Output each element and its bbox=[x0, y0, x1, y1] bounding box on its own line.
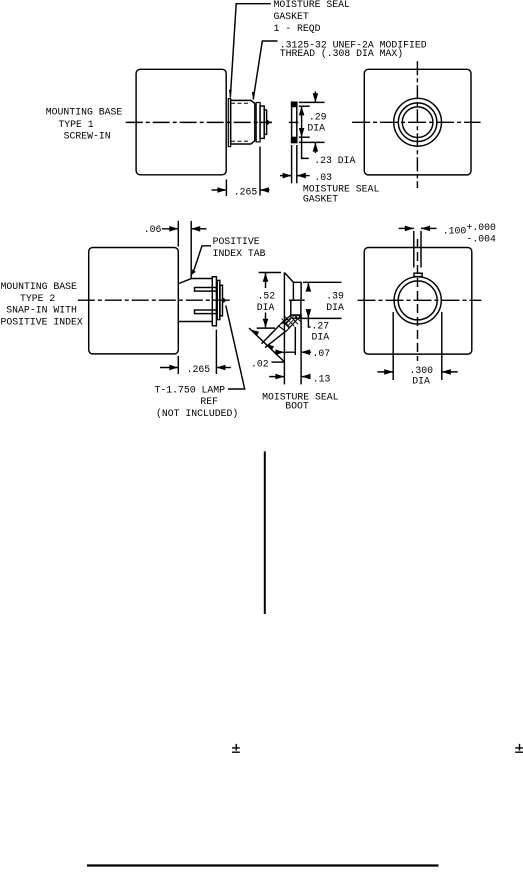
center line type 2 side bbox=[78, 299, 232, 301]
bottom rule bbox=[87, 864, 439, 866]
svg-text:POSITIVE INDEX: POSITIVE INDEX bbox=[1, 316, 83, 327]
svg-text:.100: .100 bbox=[443, 225, 467, 236]
label mounting base type 2 bbox=[1, 281, 83, 328]
lower snap prong bbox=[195, 310, 217, 314]
cone inner line bbox=[265, 331, 286, 347]
dimension .265 type 1 bbox=[225, 180, 227, 197]
lens barrel bbox=[260, 106, 264, 138]
svg-text:+.000: +.000 bbox=[467, 222, 497, 233]
vertical centerline type 2 front bbox=[417, 239, 419, 361]
svg-text:MOISTURE SEAL: MOISTURE SEAL bbox=[274, 0, 351, 10]
front view square type 1 bbox=[364, 69, 471, 175]
svg-text:.06: .06 bbox=[144, 224, 162, 235]
upper snap prong bbox=[195, 288, 217, 292]
gasket centerline tick bbox=[289, 121, 299, 123]
thread section bbox=[231, 100, 255, 144]
ring 3 bbox=[220, 285, 223, 316]
label moisture seal boot bbox=[262, 391, 339, 411]
leader positive index tab bbox=[194, 246, 211, 271]
svg-text:(NOT INCLUDED): (NOT INCLUDED) bbox=[156, 408, 238, 419]
horizontal centerline bbox=[352, 121, 481, 123]
dim .13 bbox=[269, 376, 284, 378]
label moisture seal gasket bbox=[303, 184, 380, 205]
dim .06 bbox=[177, 221, 179, 247]
svg-text:.03: .03 bbox=[314, 172, 332, 183]
svg-text:.265: .265 bbox=[187, 364, 211, 375]
leader T-1.750 lamp bbox=[226, 306, 245, 390]
boot cyl right ext line bbox=[300, 315, 302, 384]
svg-text:-.004: -.004 bbox=[467, 233, 497, 244]
flange type 1 bbox=[228, 99, 230, 147]
leader thread spec bbox=[253, 41, 277, 100]
inner circle type 2 bbox=[398, 281, 437, 320]
svg-text:INDEX TAB: INDEX TAB bbox=[213, 248, 266, 259]
dim .02 leader bbox=[249, 328, 284, 362]
svg-text:REF: REF bbox=[200, 396, 218, 407]
label .29 DIA bbox=[307, 112, 326, 134]
plus-minus left bbox=[232, 744, 240, 752]
nose top line bbox=[191, 278, 212, 280]
svg-text:DIA: DIA bbox=[312, 331, 330, 342]
tip point bbox=[267, 119, 271, 126]
positive index tab bbox=[179, 278, 192, 283]
plus-minus right bbox=[515, 744, 523, 752]
svg-text:TYPE 2: TYPE 2 bbox=[20, 293, 55, 304]
svg-text:DIA: DIA bbox=[257, 302, 275, 313]
body type 2 bbox=[89, 248, 179, 354]
.03 arrows bbox=[280, 175, 292, 177]
gasket cross-section bbox=[292, 102, 297, 142]
svg-text:.02: .02 bbox=[251, 358, 269, 369]
svg-text:THREAD (.308 DIA MAX): THREAD (.308 DIA MAX) bbox=[280, 48, 403, 59]
svg-text:POSITIVE: POSITIVE bbox=[213, 236, 260, 247]
flange type 2 bbox=[212, 277, 216, 326]
outer circle bbox=[394, 98, 442, 146]
slot ext lines bbox=[413, 231, 415, 268]
svg-text:DIA: DIA bbox=[412, 376, 430, 387]
index notch bbox=[414, 273, 422, 276]
tip point type 2 bbox=[223, 298, 226, 304]
svg-text:SNAP-IN WITH: SNAP-IN WITH bbox=[6, 304, 77, 315]
dim .52 DIA bbox=[259, 272, 281, 274]
dim .29 outer ext lines bbox=[299, 101, 325, 103]
svg-text:.13: .13 bbox=[313, 373, 331, 384]
front view square type 2 bbox=[364, 248, 472, 355]
inner circle bbox=[402, 107, 433, 138]
cone outer line bbox=[262, 325, 280, 344]
ring 2 bbox=[217, 280, 220, 319]
dim .100 arrows bbox=[399, 227, 414, 229]
boot cylinder upper bbox=[293, 282, 301, 300]
svg-text:.29: .29 bbox=[309, 112, 327, 123]
outer circle type 2 bbox=[394, 277, 441, 324]
horizontal centerline type 2 front bbox=[358, 299, 482, 301]
svg-text:.27: .27 bbox=[312, 321, 330, 332]
svg-text:.07: .07 bbox=[313, 348, 331, 359]
body type 1 bbox=[136, 69, 226, 175]
boot cylinder lower bbox=[291, 300, 301, 315]
tip section bbox=[264, 110, 266, 134]
svg-text:T-1.750 LAMP: T-1.750 LAMP bbox=[155, 384, 226, 395]
boot centerline tick bbox=[289, 299, 305, 301]
thread dashed lines bbox=[231, 102, 251, 104]
dim .39 DIA bbox=[303, 281, 342, 283]
leader moisture seal gasket bbox=[230, 4, 270, 98]
dim .03 ext lines bbox=[291, 145, 293, 183]
vertical separator line bbox=[264, 451, 266, 614]
dim .23 inner ext lines bbox=[299, 105, 310, 107]
dim .265 type 2 bbox=[177, 356, 179, 374]
inner dim line with arrows bbox=[301, 106, 303, 137]
svg-text:BOOT: BOOT bbox=[285, 401, 309, 412]
boot cyl left ext line bbox=[294, 327, 296, 355]
boot flare diagonal bbox=[284, 273, 293, 283]
svg-text:MOUNTING BASE: MOUNTING BASE bbox=[1, 281, 78, 292]
leader .23 DIA bbox=[302, 137, 309, 158]
svg-text:DIA: DIA bbox=[326, 302, 344, 313]
svg-text:1 - REQD: 1 - REQD bbox=[274, 23, 321, 34]
svg-text:.23 DIA: .23 DIA bbox=[314, 155, 355, 166]
dim .07 bbox=[275, 351, 296, 353]
hatched band bbox=[279, 315, 302, 332]
svg-text:GASKET: GASKET bbox=[274, 11, 309, 22]
middle circle bbox=[398, 103, 437, 142]
dim .300 DIA bbox=[392, 312, 394, 380]
svg-text:SCREW-IN: SCREW-IN bbox=[64, 131, 111, 142]
boot left vertical bbox=[283, 273, 285, 385]
svg-text:DIA: DIA bbox=[307, 123, 325, 134]
svg-text:.39: .39 bbox=[326, 290, 344, 301]
center line type 1 side bbox=[126, 121, 272, 123]
svg-text:MOUNTING BASE: MOUNTING BASE bbox=[46, 107, 123, 118]
svg-text:TYPE 1: TYPE 1 bbox=[58, 119, 93, 130]
svg-text:GASKET: GASKET bbox=[303, 193, 338, 204]
svg-text:.52: .52 bbox=[258, 290, 276, 301]
svg-text:.300: .300 bbox=[410, 365, 434, 376]
vertical centerline bbox=[416, 61, 418, 188]
gasket ring side view bbox=[256, 103, 260, 142]
svg-text:.265: .265 bbox=[234, 187, 258, 198]
label: mounting base type 1 bbox=[46, 107, 123, 142]
nose bottom line bbox=[178, 321, 212, 323]
outer arrows bbox=[314, 91, 316, 102]
leader .27 DIA bbox=[308, 318, 310, 327]
